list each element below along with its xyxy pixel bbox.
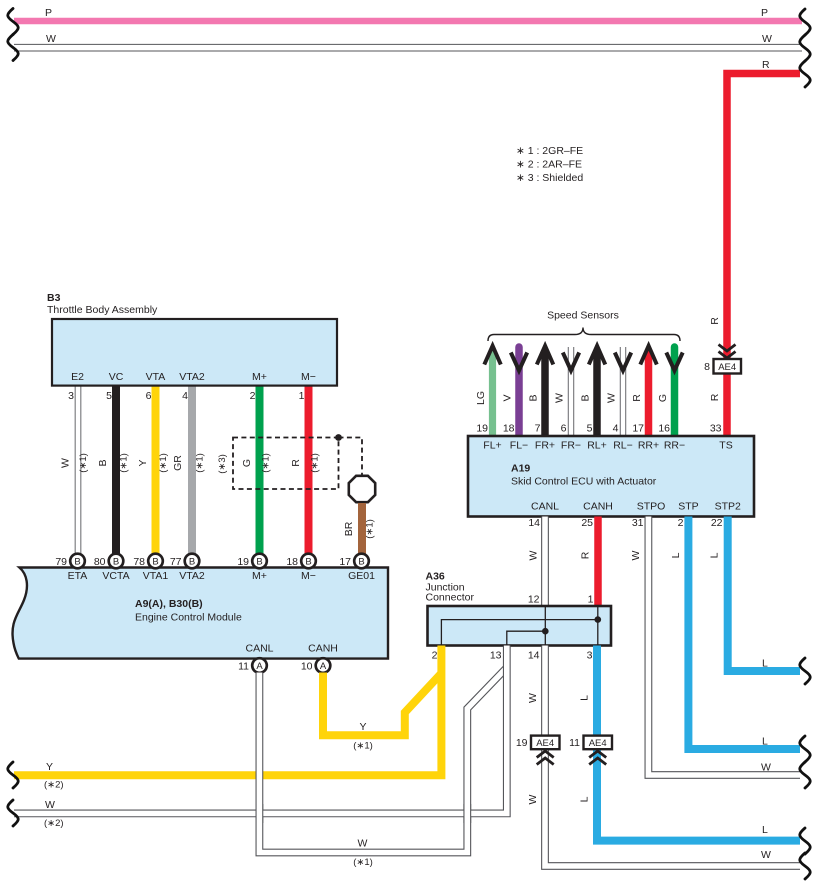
- wire W (white, top): [14, 33, 802, 48]
- svg-text:B: B: [358, 557, 364, 568]
- svg-text:R: R: [762, 59, 770, 71]
- svg-text:RR+: RR+: [638, 440, 659, 452]
- svg-text:VTA1: VTA1: [143, 570, 169, 582]
- svg-text:6: 6: [146, 390, 152, 402]
- connector AE4 pin 19: [516, 736, 560, 765]
- svg-text:25: 25: [581, 517, 593, 529]
- break squiggle left W: [8, 35, 19, 61]
- break squiggle right P: [800, 9, 811, 35]
- svg-text:P: P: [761, 7, 768, 19]
- break squiggle left Y2: [8, 762, 19, 788]
- svg-text:19: 19: [237, 556, 249, 568]
- svg-text:CANL: CANL: [531, 501, 559, 513]
- svg-text:R: R: [709, 393, 721, 401]
- svg-text:LG: LG: [475, 391, 487, 405]
- svg-text:1: 1: [299, 390, 305, 402]
- A36 internal wire pin1-pin3: [597, 606, 599, 646]
- svg-text:M+: M+: [252, 570, 267, 582]
- svg-text:∗ 1 : 2GR–FE: ∗ 1 : 2GR–FE: [516, 145, 583, 157]
- svg-text:Throttle Body Assembly: Throttle Body Assembly: [47, 304, 158, 316]
- svg-text:18: 18: [286, 556, 298, 568]
- svg-text:R: R: [631, 394, 643, 402]
- connector circle 10 A: [316, 658, 331, 673]
- wire W A36 pin13 to left edge (*2): [14, 646, 507, 830]
- connector circle 77 B: [185, 554, 200, 569]
- svg-text:19: 19: [516, 737, 528, 749]
- svg-text:G: G: [241, 459, 253, 467]
- wire crossing patch CANL vertical over W2: [255, 804, 263, 823]
- svg-text:2: 2: [432, 650, 438, 662]
- svg-text:18: 18: [503, 423, 515, 435]
- svg-text:Y: Y: [137, 459, 149, 466]
- svg-text:W: W: [761, 849, 771, 861]
- svg-text:2: 2: [678, 517, 684, 529]
- svg-text:7: 7: [535, 423, 541, 435]
- svg-text:V: V: [502, 394, 514, 401]
- component B3 Throttle Body Assembly: [47, 292, 337, 402]
- svg-text:33: 33: [710, 423, 722, 435]
- TS wire labels R: [709, 317, 722, 435]
- junction dot shield: [335, 434, 342, 441]
- sensor wire RR+ R: [631, 346, 657, 437]
- connector AE4 pin 11: [569, 736, 612, 765]
- svg-text:AE4: AE4: [718, 362, 736, 373]
- connector AE4 pin 8 (top): [704, 345, 741, 374]
- shield dashed box (*3): [217, 438, 339, 490]
- sensor wire FL+ LG: [475, 346, 501, 437]
- connector circle 18 B: [301, 554, 316, 569]
- svg-text:E2: E2: [71, 371, 84, 383]
- svg-text:W: W: [527, 693, 539, 703]
- wire W ECM CANL to A36 pin13 splice (*1): [259, 668, 506, 868]
- svg-text:L: L: [762, 824, 768, 836]
- svg-text:W: W: [45, 799, 55, 811]
- svg-text:17: 17: [632, 423, 644, 435]
- wire GR VTA2 (gray): [172, 385, 206, 555]
- svg-text:8: 8: [704, 361, 710, 373]
- svg-text:B: B: [152, 557, 158, 568]
- svg-text:GR: GR: [172, 455, 184, 471]
- Speed Sensors brace: [488, 310, 680, 342]
- wire P (pink, top): [14, 7, 802, 21]
- svg-text:79: 79: [55, 556, 67, 568]
- svg-text:B: B: [528, 394, 540, 401]
- svg-text:B: B: [580, 394, 592, 401]
- sensor wire RR- G: [657, 347, 683, 437]
- svg-text:L: L: [670, 552, 682, 558]
- svg-text:2: 2: [250, 390, 256, 402]
- connector circle 17 B: [354, 554, 369, 569]
- wire R M- (red): [290, 385, 321, 555]
- svg-text:G: G: [657, 394, 669, 402]
- svg-text:31: 31: [632, 517, 644, 529]
- wire BR GE01 (brown): [343, 503, 376, 555]
- svg-text:(∗1): (∗1): [260, 453, 271, 473]
- svg-text:W: W: [761, 762, 771, 774]
- svg-text:Y: Y: [359, 721, 366, 733]
- svg-text:(∗1): (∗1): [119, 453, 130, 473]
- svg-text:A: A: [320, 661, 327, 672]
- svg-text:19: 19: [476, 423, 488, 435]
- component A36 Junction Connector: [426, 571, 612, 662]
- svg-text:(∗1): (∗1): [78, 453, 89, 473]
- svg-text:Y: Y: [46, 761, 53, 773]
- wire L STP2: [709, 517, 801, 672]
- svg-text:5: 5: [587, 423, 593, 435]
- wire W STPO: [630, 517, 800, 776]
- svg-text:Skid Control ECU with Actuator: Skid Control ECU with Actuator: [511, 476, 657, 488]
- connector circle 78 B: [148, 554, 163, 569]
- svg-text:L: L: [579, 796, 591, 802]
- break squiggle left P: [8, 9, 19, 35]
- A36 junction dot 2: [542, 628, 549, 635]
- svg-text:14: 14: [528, 517, 540, 529]
- component ECM A9(A),B30(B): [13, 556, 388, 673]
- svg-text:M−: M−: [301, 570, 316, 582]
- svg-text:6: 6: [561, 423, 567, 435]
- svg-text:(∗3): (∗3): [217, 454, 228, 474]
- svg-text:RL−: RL−: [613, 440, 633, 452]
- svg-text:L: L: [579, 695, 591, 701]
- wire crossing patch branch vertical over W2: [463, 804, 471, 823]
- wire G M+ (green): [241, 385, 271, 555]
- svg-text:L: L: [762, 736, 768, 748]
- svg-text:FR+: FR+: [535, 440, 555, 452]
- svg-text:12: 12: [528, 594, 540, 606]
- svg-text:STP2: STP2: [715, 501, 741, 513]
- svg-text:3: 3: [587, 650, 593, 662]
- svg-text:W: W: [606, 393, 618, 403]
- svg-text:B: B: [189, 557, 195, 568]
- wire W E2 (white): [59, 385, 89, 555]
- A36 internal wire pin2-pin1/3: [441, 620, 597, 646]
- svg-text:B3: B3: [47, 292, 61, 304]
- svg-text:A19: A19: [511, 463, 530, 475]
- svg-text:3: 3: [68, 390, 74, 402]
- sensor wire RL- W: [606, 347, 632, 437]
- break squiggle right STPO W: [800, 762, 811, 788]
- svg-text:(∗1): (∗1): [353, 741, 373, 752]
- svg-text:4: 4: [182, 390, 188, 402]
- svg-text:M+: M+: [252, 371, 267, 383]
- wire W CANL A19-A36: [528, 517, 546, 608]
- svg-text:RL+: RL+: [587, 440, 607, 452]
- svg-text:L: L: [762, 658, 768, 670]
- svg-text:A9(A), B30(B): A9(A), B30(B): [135, 598, 203, 610]
- svg-text:Connector: Connector: [426, 592, 475, 604]
- svg-text:(∗1): (∗1): [158, 453, 169, 473]
- svg-text:FR−: FR−: [561, 440, 581, 452]
- connector circle 80 B: [109, 554, 124, 569]
- svg-text:STP: STP: [678, 501, 698, 513]
- svg-text:10: 10: [301, 661, 313, 673]
- svg-text:FL+: FL+: [483, 440, 501, 452]
- component A19 Skid Control ECU: [468, 436, 754, 529]
- wire R (red, from right edge down to AE4/TS): [727, 59, 800, 438]
- svg-text:CANL: CANL: [245, 643, 273, 655]
- svg-text:(∗1): (∗1): [353, 857, 373, 868]
- svg-text:VCTA: VCTA: [102, 570, 129, 582]
- break squiggle right STP L: [800, 736, 811, 762]
- svg-text:11: 11: [569, 737, 580, 749]
- svg-text:STPO: STPO: [637, 501, 666, 513]
- svg-text:W: W: [46, 33, 56, 45]
- connector circle 79 B: [70, 554, 85, 569]
- svg-text:(∗1): (∗1): [365, 519, 376, 539]
- svg-text:CANH: CANH: [308, 643, 338, 655]
- svg-text:Engine Control Module: Engine Control Module: [135, 612, 242, 624]
- svg-text:FL−: FL−: [510, 440, 528, 452]
- svg-text:M−: M−: [301, 371, 316, 383]
- wire Y A36 pin2 to left edge (*2): [14, 646, 441, 791]
- svg-text:W: W: [554, 393, 566, 403]
- svg-text:R: R: [709, 317, 721, 325]
- svg-text:W: W: [630, 550, 642, 560]
- svg-text:R: R: [580, 551, 592, 559]
- svg-text:(∗1): (∗1): [195, 453, 206, 473]
- sensor wire RL+ B: [580, 346, 606, 437]
- svg-text:77: 77: [170, 556, 182, 568]
- svg-text:Speed Sensors: Speed Sensors: [547, 310, 619, 322]
- legend notes: [516, 145, 583, 184]
- svg-text:(∗2): (∗2): [44, 818, 64, 829]
- break squiggle right pin3 L: [800, 828, 811, 854]
- svg-text:TS: TS: [719, 440, 732, 452]
- svg-text:RR−: RR−: [664, 440, 685, 452]
- svg-text:∗ 3 : Shielded: ∗ 3 : Shielded: [516, 172, 583, 184]
- svg-text:13: 13: [490, 650, 502, 662]
- svg-text:AE4: AE4: [536, 738, 554, 749]
- shield ground octagon: [349, 476, 375, 502]
- break squiggle right R: [800, 61, 811, 87]
- break squiggle right STP2 L: [800, 658, 811, 684]
- svg-text:W: W: [358, 838, 368, 850]
- wire B VC (black): [97, 385, 130, 555]
- svg-text:∗ 2 : 2AR–FE: ∗ 2 : 2AR–FE: [516, 159, 582, 171]
- svg-text:B: B: [113, 557, 119, 568]
- svg-text:11: 11: [238, 661, 249, 673]
- connector circle 11 A: [252, 658, 267, 673]
- svg-text:16: 16: [658, 423, 670, 435]
- svg-text:B: B: [97, 459, 109, 466]
- svg-text:(∗2): (∗2): [44, 780, 64, 791]
- break squiggle left W2: [8, 800, 19, 826]
- svg-text:1: 1: [588, 594, 594, 606]
- svg-text:VTA: VTA: [146, 371, 166, 383]
- svg-text:78: 78: [133, 556, 145, 568]
- svg-text:A: A: [256, 661, 263, 672]
- svg-text:5: 5: [106, 390, 112, 402]
- svg-text:VC: VC: [109, 371, 124, 383]
- svg-text:BR: BR: [343, 521, 355, 536]
- sensor wire FR- W: [554, 347, 580, 437]
- svg-text:VTA2: VTA2: [179, 371, 205, 383]
- svg-text:4: 4: [613, 423, 619, 435]
- svg-text:VTA2: VTA2: [179, 570, 205, 582]
- svg-text:W: W: [528, 550, 540, 560]
- A36 junction dot 1: [595, 616, 602, 623]
- wire R CANH A19-A36: [580, 517, 599, 608]
- svg-text:L: L: [709, 552, 721, 558]
- A36 internal wire pin12-pin14: [544, 606, 546, 646]
- svg-text:80: 80: [94, 556, 106, 568]
- svg-text:W: W: [527, 794, 539, 804]
- svg-text:P: P: [45, 7, 52, 19]
- svg-text:B: B: [256, 557, 262, 568]
- break squiggle right pin14 W: [800, 853, 811, 879]
- svg-text:B: B: [74, 557, 80, 568]
- connector circle 19 B: [252, 554, 267, 569]
- break squiggle right W: [800, 35, 811, 61]
- wire W A36 pin14 to right edge: [527, 646, 800, 867]
- svg-text:AE4: AE4: [589, 738, 607, 749]
- svg-text:W: W: [762, 33, 772, 45]
- svg-text:B: B: [305, 557, 311, 568]
- svg-text:W: W: [59, 458, 71, 468]
- shield drain dashed wire: [339, 438, 363, 476]
- wire L STP: [670, 517, 800, 750]
- wire L A36 pin3 to right edge: [579, 646, 801, 841]
- svg-text:22: 22: [711, 517, 723, 529]
- svg-text:14: 14: [528, 650, 540, 662]
- svg-text:ETA: ETA: [68, 570, 88, 582]
- svg-text:17: 17: [339, 556, 351, 568]
- wire Y VTA (yellow): [137, 385, 169, 555]
- svg-text:R: R: [290, 459, 302, 467]
- A36 internal wire pin13-pin12/14: [507, 631, 546, 645]
- sensor wire FR+ B: [528, 346, 554, 437]
- svg-text:GE01: GE01: [348, 570, 375, 582]
- svg-text:CANH: CANH: [583, 501, 613, 513]
- svg-text:(∗1): (∗1): [310, 453, 321, 473]
- wire Y CANH ECM to A36 pin2: [323, 673, 441, 752]
- sensor wire FL- V: [502, 347, 528, 437]
